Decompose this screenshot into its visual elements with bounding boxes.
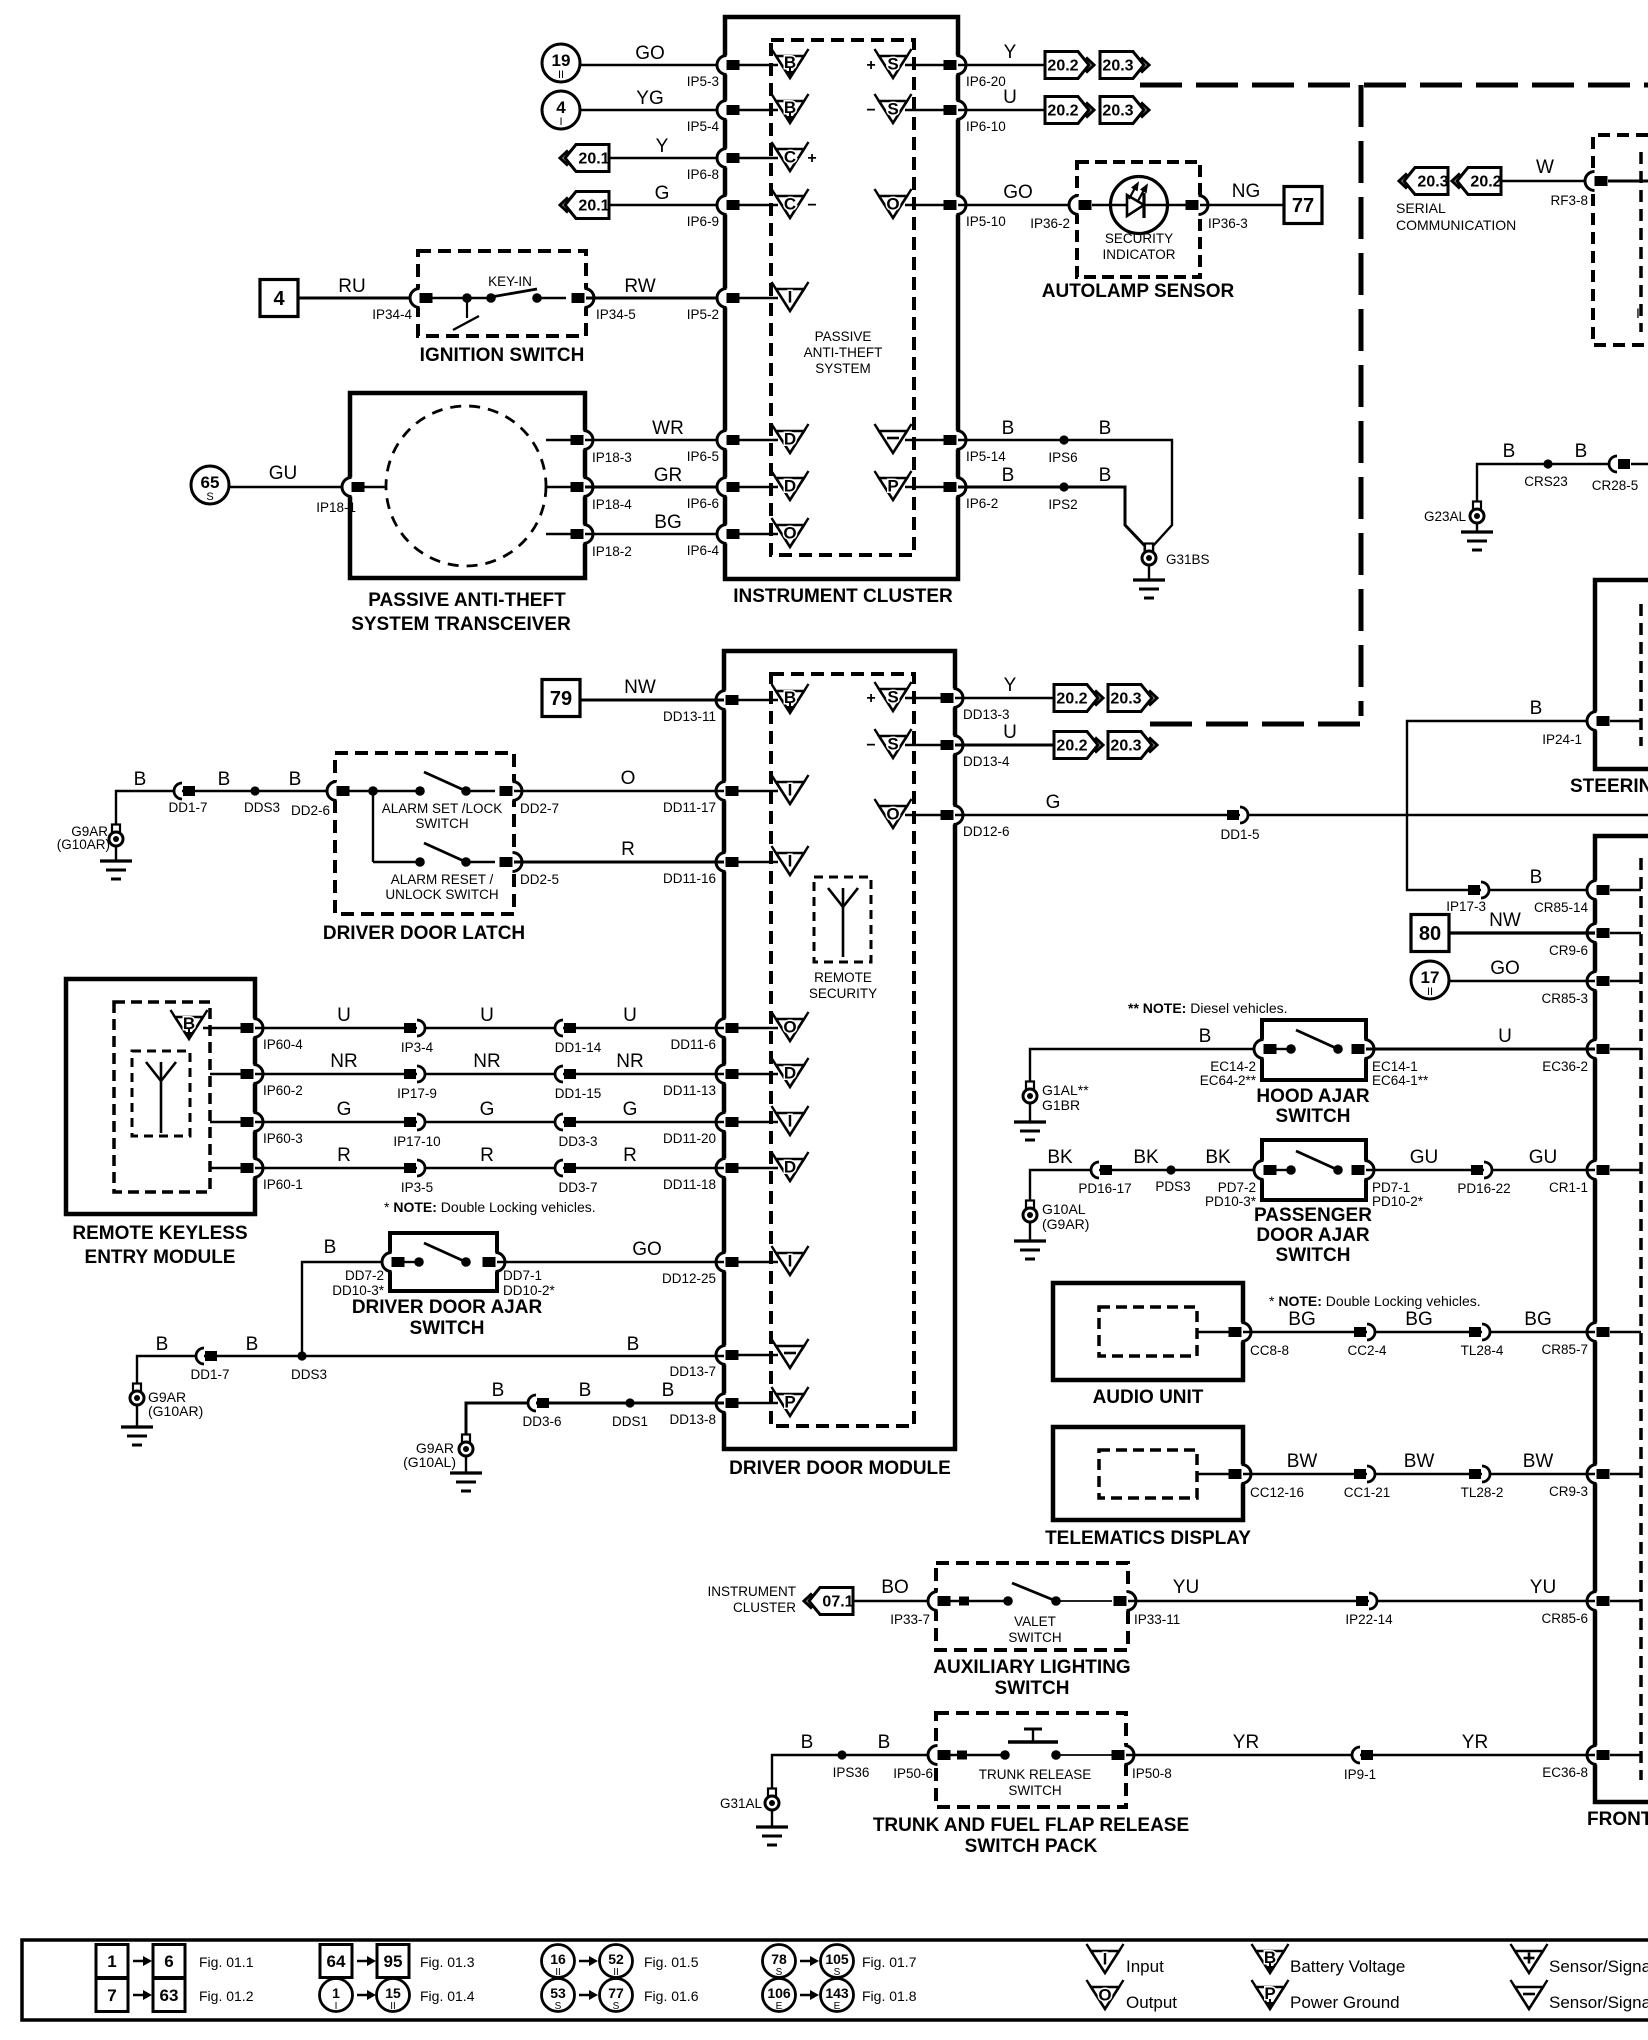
svg-text:(G10AR): (G10AR) (148, 1403, 203, 1419)
svg-text:DD13-8: DD13-8 (669, 1412, 716, 1427)
symbol triangle at DD12-25 (772, 1246, 809, 1275)
svg-text:(G10AL): (G10AL) (403, 1454, 456, 1470)
svg-text:80: 80 (1419, 923, 1441, 945)
svg-text:S: S (613, 2001, 620, 2012)
alarm set lock switch (415, 772, 471, 796)
telematics display internal wire (1197, 1473, 1229, 1475)
connector CC12-16 (1229, 1465, 1252, 1484)
svg-text:I: I (559, 116, 562, 128)
svg-text:IPS2: IPS2 (1048, 497, 1077, 512)
svg-text:PASSIVE: PASSIVE (815, 329, 872, 344)
svg-text:BG: BG (1524, 1309, 1551, 1330)
svg-text:O: O (1098, 1986, 1111, 2005)
telematics display dashed box (1099, 1450, 1197, 1498)
svg-text:STEERING: STEERING (1570, 776, 1648, 797)
connector IP5-14 (944, 431, 967, 450)
svg-text:I: I (788, 1252, 793, 1271)
connector IP17-10 (404, 1114, 425, 1130)
svg-text:W: W (1536, 157, 1554, 178)
svg-text:B: B (218, 769, 231, 790)
svg-text:U: U (623, 1005, 637, 1026)
connector DD3-3 (555, 1114, 576, 1130)
svg-text:20.2: 20.2 (1056, 738, 1087, 755)
connector IP50-6 (928, 1746, 951, 1765)
svg-text:IP18-4: IP18-4 (592, 497, 632, 512)
svg-text:O: O (783, 524, 796, 543)
svg-text:UNLOCK SWITCH: UNLOCK SWITCH (385, 887, 498, 902)
terminal box 79 (542, 680, 580, 717)
connector IP24-1 (1587, 712, 1610, 731)
svg-text:I: I (788, 852, 793, 871)
IC internal wire pin IP6-10 (905, 109, 944, 111)
svg-text:−: − (866, 102, 875, 119)
svg-text:EC14-2: EC14-2 (1210, 1059, 1256, 1074)
svg-text:DD2-6: DD2-6 (291, 803, 330, 818)
svg-text:Sensor/Signal: Sensor/Signal (1549, 1993, 1648, 2012)
svg-text:143: 143 (825, 1985, 849, 2001)
wire Y from fig 20.1 to IP6-8 (609, 157, 725, 159)
svg-text:D: D (784, 430, 796, 449)
svg-text:GO: GO (1003, 182, 1033, 203)
driver door module box (724, 651, 955, 1449)
svg-text:20.3: 20.3 (1110, 738, 1141, 755)
svg-text:P: P (784, 1393, 795, 1412)
svg-text:CRS23: CRS23 (1524, 474, 1568, 489)
svg-text:IP24-1: IP24-1 (1542, 732, 1582, 747)
wire B row DD13-7 (137, 1356, 724, 1392)
front module internal wire CR1-1 (1610, 1169, 1641, 1171)
connector DD3-7 (555, 1160, 576, 1176)
svg-text:SWITCH: SWITCH (1276, 1245, 1351, 1266)
svg-text:II: II (555, 1967, 561, 1978)
symbol triangle at DD11-13 (772, 1058, 809, 1087)
symbol triangle at DD13-11 (772, 684, 809, 713)
fig arrow 20.3 Y (1100, 52, 1149, 79)
legend power ground symbol (1252, 1980, 1289, 2009)
svg-text:TELEMATICS DISPLAY: TELEMATICS DISPLAY (1045, 1528, 1251, 1549)
svg-text:S: S (555, 2001, 562, 2012)
ignition switch contacts and blade (486, 289, 542, 303)
svg-text:SWITCH: SWITCH (1008, 1783, 1061, 1798)
DDM internal wire pin DD11-17 (738, 790, 778, 792)
svg-text:TRUNK RELEASE: TRUNK RELEASE (979, 1767, 1092, 1782)
svg-text:P: P (887, 477, 898, 496)
connector IP6-10 (944, 101, 967, 120)
legend sensor negative symbol (1511, 1980, 1548, 2009)
svg-text:* NOTE: Double Locking vehicle: * NOTE: Double Locking vehicles. (1269, 1293, 1481, 1309)
svg-text:IP22-14: IP22-14 (1345, 1612, 1393, 1627)
wire NW from 79 to DD13-11 (580, 699, 724, 702)
connector DD13-11 (716, 691, 739, 710)
svg-text:Fig. 01.8: Fig. 01.8 (862, 1988, 917, 2004)
connector IP50-8 (1112, 1746, 1135, 1765)
svg-text:YU: YU (1173, 1577, 1199, 1598)
connector DD11-17 (716, 782, 739, 801)
top right module internal wire (1608, 180, 1648, 183)
DDM internal wire pin DD11-20 (738, 1121, 778, 1123)
wire U from IP6-10 (958, 109, 1045, 111)
svg-text:DD13-7: DD13-7 (669, 1364, 716, 1379)
svg-text:NR: NR (616, 1051, 643, 1072)
connector circle 19 II (542, 44, 580, 82)
svg-text:S: S (887, 55, 898, 74)
legend sensor positive symbol (1511, 1944, 1548, 1973)
connector RF3-8 (1585, 172, 1608, 191)
svg-text:GU: GU (1529, 1147, 1558, 1168)
fig arrow 20.1 row1 (560, 145, 610, 172)
svg-text:+: + (866, 57, 875, 74)
svg-text:B: B (246, 1334, 259, 1355)
svg-text:YG: YG (636, 88, 663, 109)
svg-text:DOOR AJAR: DOOR AJAR (1256, 1225, 1370, 1246)
IC internal wire pin IP6-4 (739, 533, 778, 535)
IC internal wire pin IP5-3 (739, 64, 778, 66)
svg-text:IPS6: IPS6 (1048, 450, 1077, 465)
svg-text:B: B (627, 1334, 640, 1355)
svg-text:COMMUNICATION: COMMUNICATION (1396, 217, 1516, 233)
symbol triangle O at IP6-4 (772, 518, 809, 547)
svg-text:15: 15 (385, 1985, 401, 2001)
connector DD1-7 lower (196, 1348, 217, 1364)
legend fig 01.1 (96, 1945, 128, 1978)
divider dashed line vertical (1359, 85, 1364, 716)
svg-text:SWITCH: SWITCH (1276, 1106, 1351, 1127)
wire GO from ajar switch to DD12-25 (497, 1261, 724, 1263)
DDM internal wire pin DD12-25 (738, 1261, 778, 1263)
svg-text:G1BR: G1BR (1042, 1097, 1080, 1113)
svg-text:EC64-2**: EC64-2** (1200, 1073, 1257, 1088)
svg-text:DD13-4: DD13-4 (963, 754, 1010, 769)
svg-text:U: U (1003, 722, 1017, 743)
connector IP34-4 (410, 289, 432, 308)
svg-text:G: G (655, 183, 670, 204)
svg-text:DRIVER DOOR LATCH: DRIVER DOOR LATCH (323, 923, 525, 944)
connector IP9-1 (1352, 1747, 1373, 1763)
svg-text:PASSENGER: PASSENGER (1254, 1205, 1372, 1226)
connector DD13-4 (941, 736, 964, 755)
terminal box 77 (1284, 187, 1322, 224)
svg-text:IP36-3: IP36-3 (1208, 216, 1248, 231)
wire R from DD2-5 to DD11-16 (514, 861, 724, 864)
legend fig 01.8 (763, 1979, 796, 2013)
svg-text:EC36-8: EC36-8 (1542, 1765, 1588, 1780)
svg-text:B: B (1199, 1026, 1212, 1047)
svg-text:53: 53 (550, 1985, 566, 2001)
svg-text:SECURITY: SECURITY (809, 986, 877, 1001)
svg-text:IP18-1: IP18-1 (316, 500, 356, 515)
valet switch internal wire (950, 1597, 1112, 1606)
connector CR9-3 (1587, 1465, 1610, 1484)
audio unit box (1053, 1283, 1243, 1380)
svg-text:DD1-14: DD1-14 (555, 1040, 602, 1055)
driver door ajar switch box (390, 1233, 497, 1291)
connector IP6-4 (717, 525, 740, 544)
svg-text:20.3: 20.3 (1102, 58, 1133, 75)
connector CC1-21 (1354, 1466, 1375, 1482)
divider dashed line top (1140, 83, 1648, 88)
ground G9AR (G10AR) lower (130, 1384, 144, 1406)
svg-text:** NOTE: Diesel vehicles.: ** NOTE: Diesel vehicles. (1128, 1000, 1288, 1016)
svg-text:Sensor/Signal: Sensor/Signal (1549, 1957, 1648, 1976)
svg-text:S: S (206, 491, 213, 503)
svg-text:CR1-1: CR1-1 (1549, 1180, 1588, 1195)
svg-text:106: 106 (767, 1985, 791, 2001)
front module internal wire CR9-6 (1610, 932, 1641, 934)
svg-text:IP17-10: IP17-10 (393, 1134, 440, 1149)
hood ajar switch box (1262, 1020, 1366, 1080)
trunk release switch contacts (1000, 1729, 1061, 1760)
connector DD2-6 (327, 782, 350, 801)
svg-text:CLUSTER: CLUSTER (733, 1600, 796, 1615)
splice IPS6 (1059, 435, 1068, 444)
svg-text:1: 1 (332, 1985, 340, 2001)
svg-text:O: O (886, 805, 899, 824)
svg-text:YU: YU (1530, 1577, 1556, 1598)
driver door ajar switch contacts (382, 1253, 505, 1272)
svg-text:WR: WR (652, 418, 684, 439)
wire B continuing right from CR28-5 (1631, 463, 1648, 465)
svg-text:Battery Voltage: Battery Voltage (1290, 1957, 1405, 1976)
svg-text:S: S (776, 1967, 783, 1978)
RKE antenna dashed box (132, 1051, 190, 1136)
svg-text:+: + (807, 150, 816, 167)
svg-text:DD11-13: DD11-13 (663, 1083, 716, 1098)
svg-text:IP18-2: IP18-2 (592, 544, 632, 559)
svg-text:DD1-5: DD1-5 (1220, 827, 1259, 842)
svg-text:DRIVER DOOR MODULE: DRIVER DOOR MODULE (729, 1458, 951, 1479)
svg-text:105: 105 (825, 1951, 849, 1967)
IC internal wire pin IP5-2 (739, 297, 778, 299)
ground G9AR (G10AL) (459, 1435, 473, 1457)
fig arrow 20.3 DDM Y (1108, 685, 1157, 712)
svg-text:20.3: 20.3 (1102, 103, 1133, 120)
connector IP60-2 (241, 1065, 264, 1084)
svg-text:IP50-6: IP50-6 (893, 1766, 933, 1781)
svg-text:IP50-8: IP50-8 (1132, 1766, 1172, 1781)
wire GR from IP18-4 to IP6-6 (585, 486, 725, 489)
svg-text:IPS36: IPS36 (833, 1765, 870, 1780)
svg-text:DD10-3*: DD10-3* (332, 1283, 385, 1298)
connector DD1-14 (555, 1020, 576, 1036)
key-in actuator (453, 293, 479, 330)
RKE antenna (146, 1062, 176, 1133)
wire NR row IP60-2 to DD11-13 (255, 1073, 724, 1075)
svg-text:4: 4 (556, 98, 566, 117)
svg-text:20.3: 20.3 (1417, 174, 1448, 191)
wire GU to IP18-1 (228, 486, 350, 489)
svg-text:VALET: VALET (1014, 1614, 1056, 1629)
svg-text:DD1-7: DD1-7 (168, 800, 207, 815)
svg-text:IP5-3: IP5-3 (687, 74, 719, 89)
connector IP18-1 (350, 486, 386, 488)
svg-text:(G9AR): (G9AR) (1042, 1216, 1089, 1232)
svg-text:IGNITION SWITCH: IGNITION SWITCH (420, 345, 585, 366)
svg-text:II: II (1427, 986, 1433, 998)
svg-text:DD13-11: DD13-11 (663, 709, 716, 724)
svg-text:BK: BK (1205, 1147, 1231, 1168)
svg-text:NR: NR (330, 1051, 357, 1072)
connector IP60-3 (241, 1113, 264, 1132)
connector IP6-9 (717, 196, 740, 215)
svg-text:G: G (1046, 792, 1061, 813)
wire B to trunk release switch (772, 1755, 936, 1797)
IC internal wire pin IP5-14 (905, 439, 944, 441)
connector IP6-20 (944, 56, 967, 75)
svg-text:20.3: 20.3 (1110, 691, 1141, 708)
connector EC36-2 (1587, 1040, 1610, 1059)
steering module dashed inner line (1639, 604, 1643, 746)
svg-text:U: U (1498, 1026, 1512, 1047)
svg-text:IP5-2: IP5-2 (687, 307, 719, 322)
fig arrow 20.3 U (1100, 97, 1149, 124)
svg-text:Y: Y (656, 136, 669, 157)
ground G9AR G10AR wire B to DD2-6 (116, 791, 335, 833)
svg-text:D: D (784, 1064, 796, 1083)
svg-text:BW: BW (1287, 1451, 1318, 1472)
legend fig 01.2 (96, 1979, 128, 2012)
trunk release switch internal wire (950, 1751, 1112, 1760)
svg-text:NG: NG (1232, 181, 1261, 202)
splice PDS3 (1166, 1165, 1175, 1174)
svg-text:INSTRUMENT: INSTRUMENT (708, 1584, 797, 1599)
connector DD11-20 (716, 1113, 739, 1132)
svg-text:REMOTE KEYLESS: REMOTE KEYLESS (72, 1223, 247, 1244)
front module internal wire CR85-7 (1610, 1331, 1641, 1333)
IC internal wire pin IP5-4 (739, 109, 778, 111)
svg-text:DD3-7: DD3-7 (558, 1180, 597, 1195)
svg-text:DD3-3: DD3-3 (558, 1134, 597, 1149)
steering module box (1595, 580, 1648, 769)
symbol triangle D at IP6-6 (772, 471, 809, 500)
svg-text:U: U (480, 1005, 494, 1026)
svg-text:SYSTEM: SYSTEM (815, 361, 871, 376)
connector CR85-6 (1587, 1592, 1610, 1611)
wire YG from connector 4 to IP5-4 (580, 109, 725, 111)
DDM internal wire pin DD12-6 (905, 814, 941, 816)
svg-text:IP5-10: IP5-10 (966, 214, 1006, 229)
svg-text:HOOD AJAR: HOOD AJAR (1256, 1086, 1370, 1107)
wire B to driver door ajar switch (302, 1262, 390, 1356)
svg-text:TL28-4: TL28-4 (1461, 1343, 1504, 1358)
connector IP22-14 (1356, 1593, 1377, 1609)
symbol triangle D at IP6-5 (772, 424, 809, 453)
svg-text:NR: NR (473, 1051, 500, 1072)
svg-text:S: S (834, 1967, 841, 1978)
connector circle 4 I (542, 91, 580, 129)
svg-text:G31AL: G31AL (720, 1796, 763, 1811)
splice IPS36 (837, 1750, 846, 1759)
audio unit dashed box (1099, 1307, 1197, 1356)
svg-text:PDS3: PDS3 (1155, 1179, 1190, 1194)
connector IP17-9 (404, 1066, 425, 1082)
wire Y from DD13-3 (955, 697, 1054, 699)
svg-text:CC2-4: CC2-4 (1347, 1343, 1387, 1358)
symbol triangle at IP6-10 (866, 94, 911, 123)
transceiver internal wires (546, 440, 585, 534)
svg-text:Y: Y (1004, 42, 1017, 63)
connector IP6-5 (717, 431, 740, 450)
passenger door ajar switch contacts (1254, 1151, 1374, 1180)
svg-text:AUDIO UNIT: AUDIO UNIT (1093, 1387, 1204, 1408)
svg-text:NW: NW (1489, 910, 1521, 931)
svg-text:II: II (613, 1967, 619, 1978)
wire B to hood ajar switch (1030, 1049, 1262, 1090)
wire NW from 80 to CR9-6 (1449, 931, 1595, 934)
connector IP36-2 (1069, 196, 1092, 215)
connector IP3-4 (404, 1020, 425, 1036)
svg-text:GO: GO (635, 43, 665, 64)
ground G1AL G1BR (1023, 1082, 1037, 1104)
trunk release switch pack dashed box (936, 1713, 1126, 1807)
DDM internal wire pin DD13-11 (738, 699, 778, 701)
svg-text:CC1-21: CC1-21 (1344, 1485, 1391, 1500)
svg-text:EC64-1**: EC64-1** (1372, 1073, 1429, 1088)
symbol triangle at DD13-8 (772, 1387, 809, 1416)
svg-text:PD10-3*: PD10-3* (1205, 1194, 1257, 1209)
wire BK to passenger door ajar switch (1030, 1170, 1262, 1209)
svg-text:Fig. 01.1: Fig. 01.1 (199, 1954, 254, 1970)
connector PD16-17 (1091, 1162, 1112, 1178)
wire BW from CC12-16 to CR9-3 (1243, 1473, 1595, 1475)
connector IP60-1 (241, 1159, 264, 1178)
svg-text:1: 1 (107, 1952, 116, 1971)
splice IPS2 (1059, 482, 1068, 491)
svg-text:BK: BK (1133, 1147, 1159, 1168)
svg-text:B: B (156, 1334, 169, 1355)
svg-text:DDS3: DDS3 (291, 1367, 327, 1382)
audio unit internal wire (1197, 1331, 1229, 1333)
wire B from IP24-1 down to IP17-3 row (1407, 721, 1593, 890)
connector DD13-3 (941, 689, 964, 708)
svg-text:77: 77 (608, 1985, 624, 2001)
IC internal wire pin IP6-8 (739, 157, 778, 159)
svg-text:BK: BK (1047, 1147, 1073, 1168)
svg-text:RU: RU (338, 276, 365, 297)
wire YU from IP33-11 to CR85-6 (1128, 1600, 1595, 1602)
RKE battery triangle (171, 1010, 208, 1039)
connector circle 17 II (1411, 961, 1449, 999)
svg-text:U: U (1003, 87, 1017, 108)
svg-text:DD2-5: DD2-5 (520, 872, 559, 887)
svg-text:DD11-20: DD11-20 (663, 1131, 716, 1146)
svg-text:IP33-11: IP33-11 (1134, 1612, 1180, 1627)
svg-text:4: 4 (273, 288, 285, 310)
svg-text:C: C (784, 148, 796, 167)
latch junction (368, 786, 378, 796)
svg-text:O: O (886, 195, 899, 214)
svg-text:78: 78 (771, 1951, 787, 1967)
ground G31BS (1142, 544, 1156, 566)
svg-text:REMOTE: REMOTE (814, 970, 872, 985)
RKE internal wires (203, 1028, 241, 1168)
svg-text:IP5-14: IP5-14 (966, 449, 1006, 464)
svg-text:79: 79 (550, 688, 572, 710)
svg-text:G: G (623, 1099, 638, 1120)
auxiliary lighting switch dashed box (936, 1563, 1128, 1650)
wire RW from IP34-5 to IP5-2 (586, 297, 725, 300)
remote security antenna (828, 888, 858, 957)
wire BO to IP33-7 (853, 1600, 936, 1602)
svg-text:IP6-20: IP6-20 (966, 74, 1006, 89)
transceiver dashed circle (386, 406, 546, 566)
svg-text:INDICATOR: INDICATOR (1102, 247, 1175, 262)
connector DD13-8 (716, 1394, 739, 1413)
svg-text:R: R (621, 839, 635, 860)
connector DD11-18 (716, 1159, 739, 1178)
svg-text:SWITCH: SWITCH (410, 1318, 485, 1339)
wire GO from connector 19 to IP5-3 (580, 64, 725, 66)
svg-text:CC8-8: CC8-8 (1250, 1343, 1289, 1358)
